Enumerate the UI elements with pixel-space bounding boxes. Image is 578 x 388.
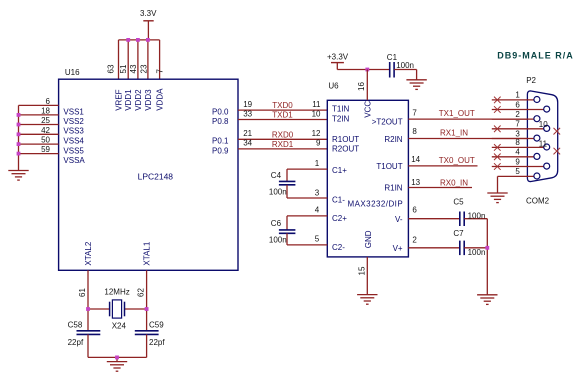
svg-text:RX0_IN: RX0_IN (440, 178, 468, 187)
connector pin 4 (492, 153, 540, 159)
pin name VSS5 (63, 146, 84, 155)
pin name P0.0 (212, 108, 229, 117)
value 100n (468, 211, 486, 220)
connector pin 6 (492, 106, 550, 112)
title DB9-MALE R/A (497, 51, 574, 61)
svg-text:R1OUT: R1OUT (332, 135, 359, 144)
net label TXD0 (272, 101, 293, 110)
pin number 4 (315, 206, 320, 215)
net label TX1_OUT (439, 109, 475, 118)
pin name VSS1 (63, 108, 84, 117)
no-connect X pin 11 (554, 148, 561, 155)
refdes P2 (526, 76, 536, 85)
svg-text:VSSA: VSSA (63, 156, 85, 165)
no-connect X (494, 97, 501, 104)
svg-text:7: 7 (515, 120, 520, 129)
wire net TX1_OUT (408, 118, 534, 120)
wire net TX0_OUT (408, 165, 477, 167)
pin name C1- (332, 195, 345, 204)
wire pin 63 VREF (118, 40, 120, 79)
svg-text:9: 9 (316, 139, 321, 148)
svg-text:TXD0: TXD0 (272, 101, 293, 110)
power 3.3V (140, 9, 157, 40)
svg-text:C1+: C1+ (332, 166, 347, 175)
svg-text:59: 59 (41, 145, 50, 154)
svg-text:62: 62 (136, 288, 145, 297)
svg-text:V-: V- (395, 215, 403, 224)
svg-text:2: 2 (412, 235, 417, 244)
svg-text:63: 63 (107, 64, 116, 73)
pin name VREF (114, 89, 123, 110)
svg-text:VSS4: VSS4 (63, 137, 84, 146)
pin name VSS2 (63, 117, 84, 126)
wire VDD bus (119, 39, 160, 41)
value 100n (468, 248, 486, 257)
value 100n (269, 236, 287, 245)
svg-text:VSS3: VSS3 (63, 127, 84, 136)
svg-text:C1-: C1- (332, 195, 345, 204)
wire pin 1 C1+ (287, 168, 327, 170)
capacitor C58 (77, 331, 101, 358)
pin number 50 (41, 136, 50, 145)
svg-text:100n: 100n (269, 187, 287, 196)
wire net TXD0 (238, 109, 327, 111)
pin name VDD2 (134, 89, 143, 111)
svg-text:13: 13 (411, 178, 420, 187)
capacitor C59 (135, 331, 159, 358)
svg-text:RXD1: RXD1 (272, 140, 294, 149)
wire net RX1_IN (408, 138, 534, 140)
pin number 51 (119, 64, 128, 73)
svg-text:1: 1 (315, 159, 320, 168)
pin number 3 (315, 188, 320, 197)
pin name C2+ (332, 214, 347, 223)
wire pin 23 VDD3 (147, 40, 149, 79)
svg-text:VSS1: VSS1 (63, 108, 84, 117)
pin number 59 (41, 145, 50, 154)
svg-text:23: 23 (139, 64, 148, 73)
junction dot V+ (485, 246, 489, 250)
svg-text:22pf: 22pf (68, 338, 84, 347)
wire pin 7 VDDA (159, 40, 161, 79)
value 22pf (68, 338, 84, 347)
pin name T1OUT (376, 162, 402, 171)
svg-text:C7: C7 (453, 229, 464, 238)
junction dots VDD bus (126, 38, 150, 42)
value 12MHz (104, 287, 129, 296)
refdes X24 (112, 322, 127, 331)
wire XTAL2 (87, 270, 89, 331)
junction dot VCC (365, 68, 369, 72)
junction dot XTAL1 (145, 307, 149, 311)
wire pin 15 GND (366, 257, 368, 295)
refdes C6 (271, 219, 282, 228)
svg-text:16: 16 (357, 82, 366, 91)
pin number 2 (515, 110, 520, 119)
pin name T1IN (332, 105, 350, 114)
svg-text:100n: 100n (468, 248, 486, 257)
wire pin 6 VSS1 (19, 104, 59, 106)
svg-text:R1IN: R1IN (384, 184, 402, 193)
wire pin 43 VDD2 (137, 40, 139, 79)
pin number 6 (515, 100, 520, 109)
wire pin 3 C1- (287, 197, 327, 199)
pin name V+ (393, 244, 403, 253)
pin name R2IN (384, 135, 402, 144)
svg-text:P0.0: P0.0 (212, 108, 229, 117)
junction dot xtal rail (115, 356, 119, 360)
junction dot XTAL2 (86, 307, 90, 311)
pin number 9 (316, 139, 321, 148)
pin number 7 (412, 109, 417, 118)
svg-text:P0.1: P0.1 (212, 137, 229, 146)
wire pin 42 VSS4 (19, 133, 59, 135)
svg-text:T1OUT: T1OUT (376, 162, 402, 171)
svg-text:TX0_OUT: TX0_OUT (439, 156, 475, 165)
connector pin 3 (492, 135, 540, 141)
IC U6 MAX3232 (327, 100, 408, 257)
svg-text:C5: C5 (453, 197, 464, 206)
refdes C5 (453, 197, 464, 206)
pin name C1+ (332, 166, 347, 175)
svg-text:19: 19 (243, 100, 252, 109)
wire pin 5 to ground (497, 176, 499, 193)
no-connect X (494, 106, 501, 113)
wire net TXD1 (238, 119, 327, 121)
pin number 10 (539, 120, 548, 129)
net label RXD0 (272, 130, 294, 139)
svg-text:RXD0: RXD0 (272, 130, 294, 139)
ground xtal (107, 362, 127, 372)
pin number 33 (243, 109, 252, 118)
svg-text:C2+: C2+ (332, 214, 347, 223)
svg-text:12: 12 (312, 129, 321, 138)
svg-text:4: 4 (315, 206, 320, 215)
wire VCC top (337, 69, 389, 71)
svg-text:14: 14 (411, 155, 420, 164)
wire pin 50 VSS5 (19, 143, 59, 145)
ground P2 (487, 193, 507, 203)
pin number 8 (412, 127, 417, 136)
no-connect X (494, 154, 501, 161)
wire XTAL1 (146, 270, 148, 331)
pin number 11 (312, 100, 321, 109)
pin number 7 (155, 69, 164, 74)
svg-text:11: 11 (539, 140, 548, 149)
svg-text:C2-: C2- (332, 243, 345, 252)
pin name VDDA (156, 88, 165, 111)
pin number 62 (136, 288, 145, 297)
refdes C1 (387, 53, 398, 62)
capacitor C5 (460, 212, 488, 227)
svg-text:4: 4 (515, 148, 520, 157)
svg-text:P2: P2 (526, 76, 536, 85)
pin number 12 (312, 129, 321, 138)
svg-text:9: 9 (515, 157, 520, 166)
svg-text:TX1_OUT: TX1_OUT (439, 109, 475, 118)
svg-text:COM2: COM2 (526, 196, 550, 205)
svg-text:10: 10 (312, 109, 321, 118)
svg-text:T2IN: T2IN (332, 114, 350, 123)
pin name R1IN (384, 184, 402, 193)
svg-text:VSS5: VSS5 (63, 146, 84, 155)
refdes C4 (271, 171, 282, 180)
pin number 43 (129, 64, 138, 73)
refdes C58 (68, 321, 83, 330)
svg-text:T1IN: T1IN (332, 105, 350, 114)
wire VSS bus (18, 105, 20, 170)
svg-text:R2IN: R2IN (384, 135, 402, 144)
pin number 16 (357, 82, 366, 91)
svg-text:1: 1 (515, 91, 520, 100)
svg-text:5: 5 (515, 167, 520, 176)
svg-text:P0.9: P0.9 (212, 146, 229, 155)
svg-text:+3.3V: +3.3V (327, 52, 349, 61)
wire pin 25 VSS3 (19, 124, 59, 126)
svg-text:12MHz: 12MHz (104, 287, 129, 296)
wire net RXD1 (238, 148, 327, 150)
pin number 21 (243, 129, 252, 138)
connector pin 9 (492, 163, 550, 169)
svg-text:6: 6 (46, 97, 51, 106)
wire V- V+ vertical (486, 219, 488, 295)
svg-text:8: 8 (515, 138, 520, 147)
capacitor C6 (279, 216, 296, 245)
svg-text:P0.8: P0.8 (212, 117, 229, 126)
svg-text:61: 61 (78, 288, 87, 297)
svg-text:3.3V: 3.3V (140, 9, 157, 18)
pin number 5 (515, 167, 520, 176)
svg-text:C4: C4 (271, 171, 282, 180)
value 100n (396, 61, 414, 70)
svg-text:U16: U16 (65, 68, 80, 77)
ground V rail (477, 295, 497, 305)
svg-text:VCC: VCC (363, 101, 372, 118)
IC U16 LPC2148 (59, 79, 238, 270)
pin number 18 (41, 107, 50, 116)
no-connect X (494, 163, 501, 170)
value 100n (269, 187, 287, 196)
svg-text:RX1_IN: RX1_IN (440, 129, 468, 138)
connector P2 body (527, 91, 557, 182)
wire pin 2 V+ (408, 247, 459, 249)
pin number 5 (315, 235, 320, 244)
pin name VCC (363, 101, 372, 118)
wire xtal bottom rail (88, 357, 147, 361)
pin number 3 (515, 129, 520, 138)
svg-text:18: 18 (41, 107, 50, 116)
wire pin 18 VSS2 (19, 114, 59, 116)
pin name C2- (332, 243, 345, 252)
refdes U16 (65, 68, 80, 77)
crystal X24 12MHz (88, 300, 147, 318)
connector pin 1 (492, 97, 540, 103)
wire pin 59 VSSA (19, 153, 59, 155)
svg-text:34: 34 (243, 139, 252, 148)
pin name P0.9 (212, 146, 229, 155)
wire pin 51 VDD1 (127, 40, 129, 79)
pin number 11 (539, 140, 548, 149)
svg-text:VDDA: VDDA (156, 88, 165, 111)
connector pin 2 (492, 116, 540, 122)
pin number 23 (139, 64, 148, 73)
pin number 63 (107, 64, 116, 73)
svg-text:R2OUT: R2OUT (332, 144, 359, 153)
capacitor C7 (460, 241, 488, 256)
net label RX0_IN (440, 178, 468, 187)
svg-text:X24: X24 (112, 322, 127, 331)
net label RXD1 (272, 140, 294, 149)
pin name VSS3 (63, 127, 84, 136)
pin name R2OUT (332, 144, 359, 153)
net label RX1_IN (440, 129, 468, 138)
wire pin 6 V- (408, 218, 459, 220)
pin number 15 (357, 266, 366, 275)
connector pin 7 (492, 125, 550, 131)
pin number 1 (315, 159, 320, 168)
value 22pf (149, 338, 165, 347)
svg-text:U6: U6 (328, 81, 339, 90)
refdes U6 (328, 81, 339, 90)
svg-text:100n: 100n (396, 61, 414, 70)
svg-text:3: 3 (515, 129, 520, 138)
svg-text:6: 6 (412, 205, 417, 214)
svg-text:XTAL1: XTAL1 (143, 241, 152, 265)
svg-text:C6: C6 (271, 219, 282, 228)
pin number 1 (515, 91, 520, 100)
svg-text:6: 6 (515, 100, 520, 109)
svg-text:VSS2: VSS2 (63, 117, 84, 126)
wire pin 4 C2+ (287, 215, 327, 217)
pin number 19 (243, 100, 252, 109)
refdes C59 (149, 321, 164, 330)
svg-text:43: 43 (129, 64, 138, 73)
junction dots VSS bus (17, 113, 21, 156)
pin number 14 (411, 155, 420, 164)
svg-text:VDD3: VDD3 (144, 89, 153, 111)
svg-text:100n: 100n (269, 236, 287, 245)
pin name P0.1 (212, 137, 229, 146)
svg-text:22pf: 22pf (149, 338, 165, 347)
svg-text:15: 15 (357, 266, 366, 275)
svg-text:51: 51 (119, 64, 128, 73)
svg-text:7: 7 (412, 109, 417, 118)
svg-text:21: 21 (243, 129, 252, 138)
pin name VSSA (63, 156, 85, 165)
pin number 7 (515, 120, 520, 129)
net label TXD1 (272, 111, 293, 120)
ground C1 (406, 80, 426, 90)
wire net RX0_IN (408, 187, 472, 189)
part name LPC2148 (138, 172, 174, 182)
svg-text:VDD1: VDD1 (124, 89, 133, 111)
pin name VSS4 (63, 137, 84, 146)
svg-text:V+: V+ (393, 244, 403, 253)
wire net RXD0 (238, 138, 327, 140)
pin name V- (395, 215, 403, 224)
pin number 13 (411, 178, 420, 187)
ground VSS (8, 171, 28, 181)
svg-text:8: 8 (412, 127, 417, 136)
label COM2 (526, 196, 550, 205)
svg-text:50: 50 (41, 136, 50, 145)
svg-text:LPC2148: LPC2148 (138, 172, 174, 182)
svg-text:25: 25 (41, 116, 50, 125)
svg-text:42: 42 (41, 126, 50, 135)
svg-text:33: 33 (243, 109, 252, 118)
svg-text:>T2OUT: >T2OUT (372, 118, 403, 127)
pin number 10 (312, 109, 321, 118)
no-connect X pin 10 (554, 128, 561, 135)
capacitor C1 (390, 62, 417, 80)
svg-text:MAX3232/DIP: MAX3232/DIP (348, 199, 404, 208)
svg-text:100n: 100n (468, 211, 486, 220)
pin number 34 (243, 139, 252, 148)
pin number 9 (515, 157, 520, 166)
svg-text:DB9-MALE R/A: DB9-MALE R/A (497, 51, 574, 61)
pin number 42 (41, 126, 50, 135)
connector pin 8 (492, 144, 550, 150)
pin name VDD3 (144, 89, 153, 111)
pin name T2IN (332, 114, 350, 123)
svg-text:2: 2 (515, 110, 520, 119)
pin name R1OUT (332, 135, 359, 144)
svg-text:7: 7 (155, 69, 164, 74)
svg-text:VDD2: VDD2 (134, 89, 143, 111)
svg-text:5: 5 (315, 235, 320, 244)
pin name VDD1 (124, 89, 133, 111)
no-connect X (494, 126, 501, 133)
pin name XTAL1 (143, 241, 152, 265)
svg-text:GND: GND (364, 230, 373, 248)
pin number 6 (412, 205, 417, 214)
pin number 2 (412, 235, 417, 244)
ground pin15 (357, 295, 377, 305)
pin name GND (364, 230, 373, 248)
pin name P0.8 (212, 117, 229, 126)
pin name XTAL2 (84, 241, 93, 265)
part name MAX3232/DIP (348, 199, 404, 208)
svg-text:VREF: VREF (114, 89, 123, 110)
svg-text:XTAL2: XTAL2 (84, 241, 93, 265)
svg-text:10: 10 (539, 120, 548, 129)
pin number 8 (515, 138, 520, 147)
pin name T2OUT (372, 118, 403, 127)
pin number 25 (41, 116, 50, 125)
svg-text:TXD1: TXD1 (272, 111, 293, 120)
svg-text:C58: C58 (68, 321, 83, 330)
wire pin 16 VCC (366, 70, 368, 101)
pin number 61 (78, 288, 87, 297)
wire pin 5 C2- (287, 244, 327, 246)
svg-text:3: 3 (315, 188, 320, 197)
no-connect X (494, 144, 501, 151)
svg-text:11: 11 (312, 100, 321, 109)
svg-text:C59: C59 (149, 321, 164, 330)
power +3.3V (327, 52, 349, 69)
net label TX0_OUT (439, 156, 475, 165)
connector pin 5 (498, 173, 540, 179)
pin number 4 (515, 148, 520, 157)
pin number 6 (46, 97, 51, 106)
capacitor C4 (279, 169, 296, 198)
refdes C7 (453, 229, 464, 238)
